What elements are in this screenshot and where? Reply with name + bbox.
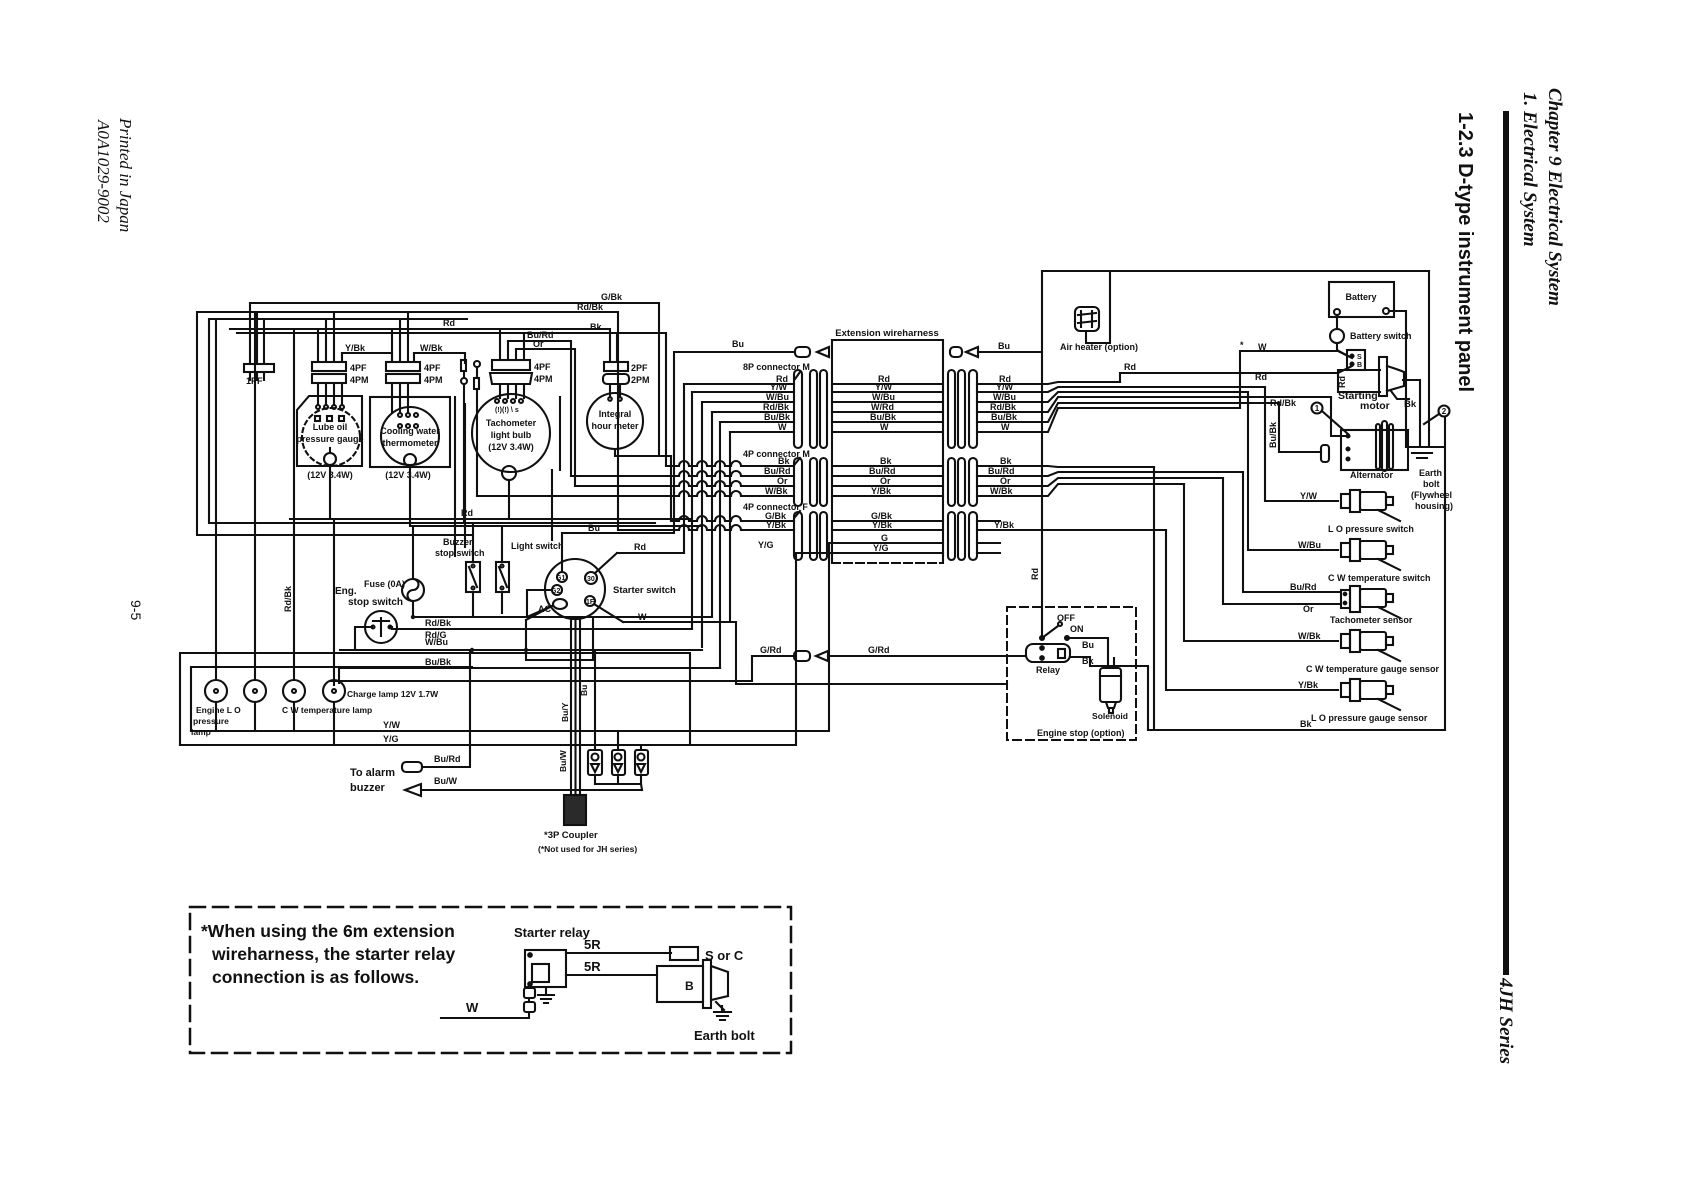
wire Y/Bk to sensor [1166, 530, 1338, 690]
svg-text:2: 2 [1442, 407, 1447, 416]
svg-text:Rd/Bk: Rd/Bk [763, 402, 790, 412]
lamp CW temperature [283, 680, 305, 731]
svg-text:Fuse (0A): Fuse (0A) [364, 579, 405, 589]
tach wire wraps [455, 397, 560, 556]
CW temperature gauge sensor [1341, 630, 1400, 661]
svg-text:Y/Bk: Y/Bk [766, 520, 787, 530]
buzzer stop switch [466, 523, 480, 617]
wire Or to tach sensor [1223, 478, 1341, 604]
svg-text:OFF: OFF [1057, 613, 1075, 623]
svg-text:(!)(!) \ s: (!)(!) \ s [495, 407, 519, 414]
svg-text:Tachometer: Tachometer [486, 418, 537, 428]
svg-text:(12V 3.4W): (12V 3.4W) [488, 442, 534, 452]
wire Rd/Bk top + panel outer left [197, 312, 618, 535]
relay [1026, 644, 1070, 662]
svg-text:Y/W: Y/W [383, 720, 401, 730]
wire relay to Bk [1070, 657, 1148, 730]
svg-text:Bu: Bu [588, 523, 600, 533]
svg-text:4PM: 4PM [534, 374, 553, 384]
starter switch [545, 559, 605, 619]
svg-text:Battery: Battery [1345, 292, 1376, 302]
wire link to G/Rd [330, 656, 752, 681]
svg-text:*3P Coupler: *3P Coupler [544, 830, 598, 841]
stop switch OFF/ON [1040, 622, 1114, 668]
3P coupler twin wire [571, 618, 580, 795]
8P labels left [763, 374, 791, 432]
tachometer light bulb [472, 394, 550, 519]
svg-text:(12V 3.4W): (12V 3.4W) [385, 470, 431, 480]
svg-text:Y/W: Y/W [1300, 491, 1318, 501]
svg-text:light bulb: light bulb [491, 430, 532, 440]
svg-text:Y/Bk: Y/Bk [1298, 680, 1319, 690]
svg-text:W/Bk: W/Bk [765, 486, 788, 496]
lube gauge connector 4PF [312, 362, 367, 373]
inline bulb connectors [461, 360, 480, 523]
4PM labels mid [869, 456, 896, 496]
4PM labels left [764, 456, 791, 496]
wire Bk to bottom [1153, 467, 1155, 730]
svg-text:Bk: Bk [1082, 656, 1094, 666]
lamp panel box inner [191, 667, 472, 731]
wire W [441, 987, 529, 1018]
lube oil pressure gauge box [296, 396, 363, 480]
4PF labels left [765, 511, 787, 530]
solenoid [1100, 668, 1121, 713]
wire Y/G bus [180, 553, 943, 745]
svg-text:Engine L O: Engine L O [196, 705, 241, 715]
8P connector pills right [948, 370, 977, 448]
wire W/Bk jumper [414, 353, 465, 363]
wire panel inner left [209, 319, 655, 523]
svg-text:Bu/Rd: Bu/Rd [1290, 582, 1317, 592]
svg-text:Starter switch: Starter switch [613, 585, 676, 596]
svg-text:Bu/Bk: Bu/Bk [1268, 421, 1278, 448]
svg-text:W/Bk: W/Bk [420, 343, 443, 353]
svg-text:Bu/Rd: Bu/Rd [869, 466, 896, 476]
svg-text:Bu/Bk: Bu/Bk [870, 412, 897, 422]
svg-text:Bu/Rd: Bu/Rd [764, 466, 791, 476]
wire Bu/W with arrow [421, 789, 642, 791]
cooling gauge feed wires [392, 312, 414, 412]
wire battery plus [1389, 311, 1406, 447]
svg-text:Rd: Rd [1124, 362, 1136, 372]
battery [1329, 282, 1394, 317]
svg-text:Rd/Bk: Rd/Bk [577, 302, 604, 312]
wire Rd to motor [1120, 366, 1352, 382]
svg-text:Extension wireharness: Extension wireharness [835, 328, 938, 339]
svg-text:Air heater (option): Air heater (option) [1060, 342, 1138, 352]
svg-text:motor: motor [1360, 400, 1390, 412]
3P coupler [564, 795, 586, 825]
svg-text:1-2.3 D-type instrument panel: 1-2.3 D-type instrument panel [1454, 112, 1476, 392]
svg-text:To alarm: To alarm [350, 767, 395, 779]
tach connector 4PF [492, 360, 551, 372]
eng stop switch [365, 611, 397, 643]
earth bolt ground [714, 1006, 731, 1020]
wire Y/W to sensor [1265, 387, 1338, 501]
svg-text:A0A1029-9002: A0A1029-9002 [94, 119, 113, 223]
svg-text:Bk: Bk [880, 456, 892, 466]
starter relay symbol [525, 950, 566, 1003]
wire W to motor S [1240, 351, 1352, 408]
svg-text:G/Rd: G/Rd [760, 645, 782, 655]
svg-text:Y/Bk: Y/Bk [872, 520, 893, 530]
svg-text:Bu/Bk: Bu/Bk [764, 412, 791, 422]
diode bottom link [595, 784, 642, 790]
svg-text:Rd: Rd [461, 508, 473, 518]
wire Y/Bk jumper [342, 353, 392, 362]
wire Bk motor earth [1403, 380, 1420, 447]
warning lamp diode 3 [635, 745, 648, 784]
4PM wires right [977, 466, 1243, 496]
svg-text:Y/Bk: Y/Bk [871, 486, 892, 496]
wire Bu/Bk [339, 668, 720, 683]
svg-text:30: 30 [587, 576, 595, 583]
svg-text:Chapter 9 Electrical System: Chapter 9 Electrical System [1544, 88, 1565, 306]
svg-text:lamp: lamp [191, 727, 211, 737]
svg-text:Or: Or [1000, 476, 1011, 486]
svg-text:Bu/Bk: Bu/Bk [991, 412, 1018, 422]
wrap verticals [684, 384, 730, 668]
svg-text:Battery switch: Battery switch [1350, 331, 1412, 341]
svg-text:Bu/W: Bu/W [434, 776, 457, 786]
svg-text:Bu: Bu [998, 341, 1010, 351]
inline connectors on W [524, 988, 535, 1012]
svg-text:Y/Bk: Y/Bk [345, 343, 366, 353]
alarm buzzer connector [402, 650, 470, 772]
tachometer sensor [1341, 586, 1400, 618]
header rule [1503, 111, 1509, 975]
svg-text:Rd: Rd [1337, 376, 1347, 388]
4PM wires left [477, 461, 794, 496]
svg-text:(*Not used for JH series): (*Not used for JH series) [538, 844, 637, 854]
svg-text:Y/G: Y/G [873, 543, 889, 553]
svg-text:W/Bu: W/Bu [872, 392, 895, 402]
8P wires right [977, 382, 1331, 432]
svg-text:Charge lamp 12V 1.7W: Charge lamp 12V 1.7W [347, 689, 439, 699]
lamp panel box outer [180, 653, 690, 745]
svg-text:G1: G1 [556, 575, 565, 582]
svg-text:Rd: Rd [1255, 372, 1267, 382]
svg-text:Earth bolt: Earth bolt [694, 1028, 755, 1043]
integral hour meter [587, 393, 671, 456]
svg-text:Y/G: Y/G [758, 540, 774, 550]
svg-text:1: 1 [1315, 404, 1320, 413]
svg-text:Or: Or [1303, 604, 1314, 614]
wire G/Rd connector and arrow [752, 651, 1026, 661]
wire W/Bu to sensor [1248, 392, 1338, 550]
svg-text:B: B [1357, 362, 1362, 369]
svg-text:4PM: 4PM [350, 375, 369, 385]
lamp 2 [244, 680, 266, 731]
svg-text:G/Bk: G/Bk [601, 292, 623, 302]
engine box right lower [1444, 417, 1446, 730]
svg-text:housing): housing) [1415, 501, 1453, 511]
svg-text:C W temperature lamp: C W temperature lamp [282, 705, 372, 715]
svg-text:B: B [685, 979, 694, 993]
svg-text:W/Bu: W/Bu [993, 392, 1016, 402]
engine box top [1042, 270, 1429, 272]
svg-text:Rd: Rd [443, 318, 455, 328]
wire Y/W bus [191, 543, 943, 731]
svg-text:W/Bu: W/Bu [425, 637, 448, 647]
svg-text:Engine stop (option): Engine stop (option) [1037, 728, 1124, 738]
svg-text:Bu/Y: Bu/Y [560, 702, 570, 722]
wire Bu/Bk to alternator [1279, 403, 1321, 452]
svg-text:2PM: 2PM [631, 375, 650, 385]
svg-text:G/Rd: G/Rd [868, 645, 890, 655]
svg-text:pressure gauge: pressure gauge [296, 434, 363, 444]
svg-text:Or: Or [880, 476, 891, 486]
4PM labels right [988, 456, 1015, 496]
warning lamp diode 2 [612, 731, 625, 784]
extension wireharness box [832, 340, 943, 563]
svg-text:ON: ON [1070, 624, 1084, 634]
wire W/Bk to sensor [1184, 484, 1338, 641]
svg-text:Y/G: Y/G [383, 734, 399, 744]
wire Rd/Bk mid [413, 606, 712, 617]
svg-text:G: G [881, 533, 888, 543]
lube gauge connector 4PM [312, 374, 369, 385]
svg-text:4PF: 4PF [350, 363, 367, 373]
CW temperature switch [1341, 539, 1400, 570]
svg-text:Or: Or [533, 339, 544, 349]
svg-text:stop switch: stop switch [348, 597, 403, 608]
4PF wires right [977, 521, 1166, 553]
svg-text:W: W [1001, 422, 1010, 432]
svg-text:pressure: pressure [193, 716, 229, 726]
svg-text:Or: Or [777, 476, 788, 486]
circled 1 [1312, 403, 1349, 435]
wire 5R upper [566, 952, 671, 954]
svg-text:W/Rd: W/Rd [871, 402, 894, 412]
lamp engine LO pressure [205, 680, 227, 731]
svg-text:1. Electrical System: 1. Electrical System [1519, 92, 1540, 247]
wire lower bus 2 [410, 466, 700, 526]
svg-text:Bk: Bk [1000, 456, 1012, 466]
lamp charge [323, 680, 345, 745]
svg-text:W/Bu: W/Bu [1298, 540, 1321, 550]
4PM wires inside [832, 466, 943, 496]
engine stop option box [1007, 607, 1136, 740]
svg-text:C W temperature gauge sensor: C W temperature gauge sensor [1306, 664, 1440, 674]
wire Rd from key 30 [595, 553, 684, 573]
air heater [1075, 271, 1110, 343]
svg-text:Solenoid: Solenoid [1092, 711, 1128, 721]
connector 1PF [244, 303, 274, 386]
alternator [1321, 421, 1408, 471]
tach feed wires [500, 329, 524, 398]
8P wires inside [832, 384, 943, 432]
svg-text:Bu: Bu [1082, 640, 1094, 650]
svg-text:Relay: Relay [1036, 665, 1060, 675]
svg-text:W: W [638, 612, 647, 622]
wire Rd/Bk to alternator [1331, 397, 1348, 436]
8P labels right [990, 374, 1018, 432]
svg-text:Y/W: Y/W [770, 382, 788, 392]
S or C connector [670, 947, 698, 960]
svg-text:Tachometer sensor: Tachometer sensor [1330, 615, 1413, 625]
inset note box [190, 907, 791, 1053]
svg-text:Eng.: Eng. [335, 586, 357, 597]
svg-text:Light switch: Light switch [511, 541, 564, 551]
svg-text:(Flywheel: (Flywheel [1411, 490, 1452, 500]
inset note text [201, 921, 455, 987]
svg-text:Bk: Bk [1404, 399, 1417, 410]
LO pressure switch [1341, 490, 1400, 521]
wire Or to 4PM [516, 349, 575, 486]
8P wires left [684, 384, 794, 432]
junction dots [411, 615, 528, 652]
svg-text:Rd/Bk: Rd/Bk [425, 618, 452, 628]
cooling gauge connector 4PF [386, 362, 441, 373]
svg-text:4PF: 4PF [534, 362, 551, 372]
svg-text:C W temperature switch: C W temperature switch [1328, 573, 1431, 583]
svg-text:Starter relay: Starter relay [514, 925, 591, 940]
wire Bk top [237, 333, 666, 466]
engine box bottom [1148, 729, 1445, 731]
4PF labels mid [871, 511, 893, 553]
svg-text:W/Bk: W/Bk [1298, 631, 1321, 641]
wire Bu arrow left [795, 347, 829, 357]
wire Bu/Rd to tach sensor [1243, 472, 1341, 592]
svg-text:Bu/Bk: Bu/Bk [425, 657, 452, 667]
4PF wires left [618, 516, 794, 530]
LO pressure gauge sensor [1341, 679, 1400, 710]
svg-text:Buzzer: Buzzer [443, 537, 473, 547]
svg-text:9-5: 9-5 [128, 600, 144, 620]
engine box left / stop feed [1041, 271, 1043, 638]
wire Bu from G1 [562, 352, 794, 572]
svg-text:W/Bk: W/Bk [990, 486, 1013, 496]
svg-text:Bu: Bu [732, 339, 744, 349]
svg-text:5R: 5R [584, 959, 601, 974]
svg-text:Cooling water: Cooling water [380, 426, 440, 436]
svg-text:Alternator: Alternator [1350, 470, 1394, 480]
wire Rd lower bus [290, 466, 690, 519]
svg-text:*When using the 6m extension: *When using the 6m extension [201, 921, 455, 941]
svg-text:Y/W: Y/W [875, 382, 893, 392]
label earth bolt [1411, 468, 1453, 511]
svg-text:Rd/Bk: Rd/Bk [990, 402, 1017, 412]
svg-text:stop switch: stop switch [435, 548, 485, 558]
svg-text:4PF: 4PF [424, 363, 441, 373]
svg-text:Rd/Bk: Rd/Bk [283, 585, 293, 612]
svg-text:Rd: Rd [634, 542, 646, 552]
hour meter connector 2PF [604, 362, 648, 373]
4PF pills right [948, 512, 977, 560]
wire W from key 1F [594, 604, 1007, 684]
light switch [496, 526, 509, 613]
wire 5R lower [566, 974, 657, 976]
svg-text:W: W [1258, 342, 1267, 352]
svg-text:*: * [1240, 340, 1244, 350]
svg-text:Lube oil: Lube oil [313, 422, 348, 432]
cooling water thermometer box [370, 397, 450, 480]
starting motor [1338, 350, 1409, 399]
wire AC down [526, 606, 593, 660]
wire G/Bk top [250, 303, 671, 521]
wire Rd top [230, 329, 610, 362]
svg-text:W: W [466, 1000, 479, 1015]
svg-text:buzzer: buzzer [350, 782, 386, 794]
warning lamp diode 1 [588, 652, 602, 784]
svg-text:Rd/Bk: Rd/Bk [1270, 398, 1297, 408]
wire Bu/Rd to 4PM [508, 341, 571, 476]
4PF pills left [794, 512, 827, 560]
8P labels mid [870, 374, 897, 432]
lamp drop wires [216, 312, 334, 685]
svg-text:Bu/W: Bu/W [558, 749, 568, 772]
svg-text:Bk: Bk [778, 456, 790, 466]
svg-text:L O pressure gauge sensor: L O pressure gauge sensor [1311, 713, 1428, 723]
lube gauge feed wires [318, 312, 342, 404]
svg-text:Bu/Rd: Bu/Rd [434, 754, 461, 764]
svg-text:4JH Series: 4JH Series [1495, 977, 1516, 1064]
svg-text:Y/W: Y/W [996, 382, 1014, 392]
starter motor B box [657, 960, 728, 1010]
svg-text:S: S [1357, 354, 1362, 361]
svg-text:Earth: Earth [1419, 468, 1442, 478]
svg-text:Integral: Integral [599, 409, 632, 419]
svg-text:Bk: Bk [590, 322, 602, 332]
svg-text:thermometer: thermometer [382, 438, 438, 448]
wire W/Bu [340, 627, 702, 650]
cooling gauge connector 4PM [386, 374, 443, 385]
wire Bu arrow right [950, 347, 1042, 357]
svg-text:W: W [880, 422, 889, 432]
svg-text:W/Bu: W/Bu [766, 392, 789, 402]
hour meter connector 2PM [603, 374, 650, 385]
svg-text:Rd: Rd [1030, 568, 1040, 580]
wire Rd/G [390, 627, 692, 629]
4PM pills left [794, 458, 827, 506]
tach connector 4PM [490, 373, 553, 384]
battery switch [1330, 315, 1350, 357]
svg-text:connection is as follows.: connection is as follows. [212, 967, 419, 987]
earth bar [1406, 447, 1443, 458]
8P connector pills left [794, 370, 827, 448]
svg-text:hour meter: hour meter [591, 421, 639, 431]
fuse [402, 526, 424, 617]
svg-text:5R: 5R [584, 937, 601, 952]
svg-text:L O pressure switch: L O pressure switch [1328, 524, 1414, 534]
svg-text:Printed in Japan: Printed in Japan [116, 117, 135, 232]
engine box right upper [1428, 271, 1430, 447]
svg-text:bolt: bolt [1423, 479, 1440, 489]
hour meter feed wires [610, 333, 620, 396]
wire G2 left [527, 590, 552, 617]
4PF wires inside [832, 521, 943, 530]
svg-text:Bu/Rd: Bu/Rd [988, 466, 1015, 476]
svg-text:W: W [778, 422, 787, 432]
4PM pills right [948, 458, 977, 506]
svg-text:Y/Bk: Y/Bk [994, 520, 1015, 530]
circled 2 [1424, 406, 1450, 425]
svg-text:Bu: Bu [579, 685, 589, 696]
svg-text:2PF: 2PF [631, 363, 648, 373]
svg-text:4PM: 4PM [424, 375, 443, 385]
svg-text:wireharness, the starter relay: wireharness, the starter relay [211, 944, 455, 964]
